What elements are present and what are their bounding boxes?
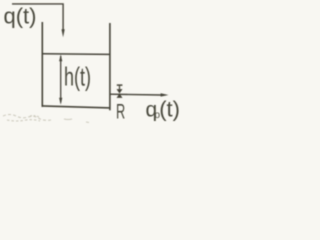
h arrowhead down [59,98,62,105]
valve R body (bowtie) [117,89,123,98]
outflow pipe [110,93,161,96]
tank right wall [109,23,111,110]
paper background [0,0,183,127]
tank bottom [42,106,111,108]
valve R stem [119,86,121,90]
inflow pipe line [12,4,63,31]
h arrowhead up [59,54,62,61]
svg-text:h(t): h(t) [64,62,91,92]
outflow arrowhead [161,93,169,96]
liquid surface line [43,53,110,56]
svg-text:R: R [116,100,125,123]
valve R handle [117,84,123,86]
h dimension line [60,56,62,103]
svg-text:q(t): q(t) [4,3,37,28]
paper smudge bottom-left [3,115,89,123]
svg-text:(t): (t) [159,97,180,122]
inflow arrowhead [62,29,65,37]
tank left wall [41,22,43,107]
